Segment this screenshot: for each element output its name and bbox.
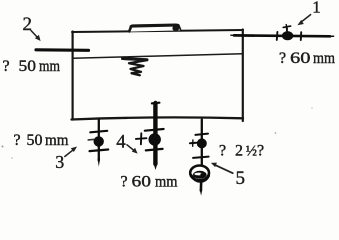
pipe 4 top cap <box>152 102 160 105</box>
manhole lid on tank top <box>129 24 181 31</box>
valve V4 side cross vertical <box>140 133 142 144</box>
svg-text:1: 1 <box>312 0 321 17</box>
valve V5 left nub horizontal <box>190 142 197 145</box>
arrow for label 1 <box>302 15 311 22</box>
valve V4 body <box>149 133 161 145</box>
svg-text:60: 60 <box>290 50 311 67</box>
pipe 2 (inlet, left) <box>36 48 89 52</box>
valve V5 left nub vertical <box>192 140 194 146</box>
svg-text:?: ? <box>257 142 264 159</box>
valve V5 body <box>197 138 207 148</box>
valve V1 handle cross <box>283 26 290 27</box>
lid right end blob <box>172 25 179 31</box>
meter center dot <box>200 173 203 176</box>
water meter body <box>190 166 209 181</box>
valve V4 upper flange tick <box>145 129 164 131</box>
valve V3 upper flange tick <box>90 131 107 133</box>
valve V1 left flange tick <box>276 32 279 40</box>
valve V5 lower flange tick <box>193 157 209 158</box>
svg-text:5: 5 <box>236 168 246 189</box>
svg-text:mm: mm <box>39 58 60 75</box>
svg-text:50: 50 <box>19 58 37 75</box>
valve V1 stem <box>286 27 289 32</box>
svg-text:4: 4 <box>116 131 126 152</box>
pipe 3 (vertical, below tank left) <box>98 120 100 161</box>
meter inner swirl <box>193 171 207 179</box>
svg-text:mm: mm <box>313 50 335 67</box>
svg-text:mm: mm <box>155 173 178 190</box>
arrow for label 3 <box>65 149 74 156</box>
arrow for label 4 <box>127 145 134 151</box>
svg-text:?: ? <box>279 50 286 67</box>
pipe 1 left taper <box>231 34 237 36</box>
meter inner white slit <box>194 173 203 176</box>
lid left foot <box>129 27 131 31</box>
valve V1 right flange tick <box>300 32 302 40</box>
water squiggle inside tank <box>124 59 147 75</box>
svg-text:?: ? <box>219 142 226 159</box>
squiggle top thick stroke <box>123 59 148 60</box>
pipe 1 (outlet, right) <box>234 34 330 38</box>
water level line <box>73 54 243 59</box>
stray speck noise <box>2 146 4 148</box>
svg-text:?: ? <box>121 173 128 190</box>
tank right wall <box>242 30 244 122</box>
svg-text:?: ? <box>3 58 10 75</box>
svg-text:2: 2 <box>235 142 243 159</box>
valve V4 side cross horizontal <box>136 137 147 140</box>
valve V3 left nub <box>88 138 93 141</box>
pipe 5 (vertical, below tank right) <box>201 120 203 166</box>
svg-text:½: ½ <box>246 143 257 159</box>
svg-text:50: 50 <box>27 132 43 149</box>
pipe 4 (thick vertical through tank bottom) <box>153 103 157 164</box>
pipe 4 pointed tip <box>153 163 157 171</box>
pipe 1 right taper <box>329 35 334 37</box>
arrow for label 5 <box>216 165 233 173</box>
svg-text:mm: mm <box>45 132 69 149</box>
tank top line <box>72 30 243 32</box>
pipe 3 pointed tip <box>98 159 101 167</box>
arrow for label 2 <box>31 31 38 38</box>
pipe below meter pointed tip <box>200 190 203 196</box>
meter bottom thick arc <box>191 176 208 182</box>
svg-text:2: 2 <box>23 14 33 35</box>
tank left wall <box>71 32 73 120</box>
tank bottom line <box>72 117 244 119</box>
lid top bar <box>131 25 178 26</box>
valve V5 upper flange tick <box>195 134 208 135</box>
valve V1 body <box>282 31 293 40</box>
valve V3 body <box>94 136 104 146</box>
valve V4 lower flange tick <box>146 149 163 151</box>
pipe below meter <box>200 180 203 190</box>
svg-text:3: 3 <box>55 152 64 172</box>
svg-text:?: ? <box>14 132 21 149</box>
svg-text:60: 60 <box>132 173 152 190</box>
valve V3 lower flange tick <box>90 150 109 152</box>
